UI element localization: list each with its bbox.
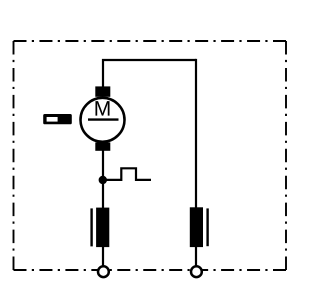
wire: motor bottom down through junction to left terminal: [102, 149, 104, 267]
housing outline, bottom edge: [14, 269, 287, 271]
housing outline (dash-dot component boundary), top edge: [14, 40, 287, 42]
junction node on motor lead: [99, 176, 107, 184]
connector plug symbol (left of motor): [43, 114, 72, 124]
housing outline, right edge: [285, 41, 287, 270]
housing outline, left edge: [13, 41, 15, 270]
wire: right vertical drop to right terminal: [195, 59, 197, 267]
terminal pin (left, open circle on boundary): [98, 266, 109, 277]
terminal pin (right, open circle on boundary): [191, 266, 202, 277]
connector contact (right): thick bar: [190, 207, 203, 247]
connector contact (left): thin mating bar: [90, 208, 92, 246]
pulse signal symbol (square wave): [106, 168, 151, 180]
connector contact (right): thin mating bar: [206, 208, 208, 246]
wire: motor top terminal up and right to bus: [103, 60, 196, 88]
connector contact (left): thick bar: [96, 208, 109, 248]
motor M (DC motor with brushes): [81, 86, 125, 150]
